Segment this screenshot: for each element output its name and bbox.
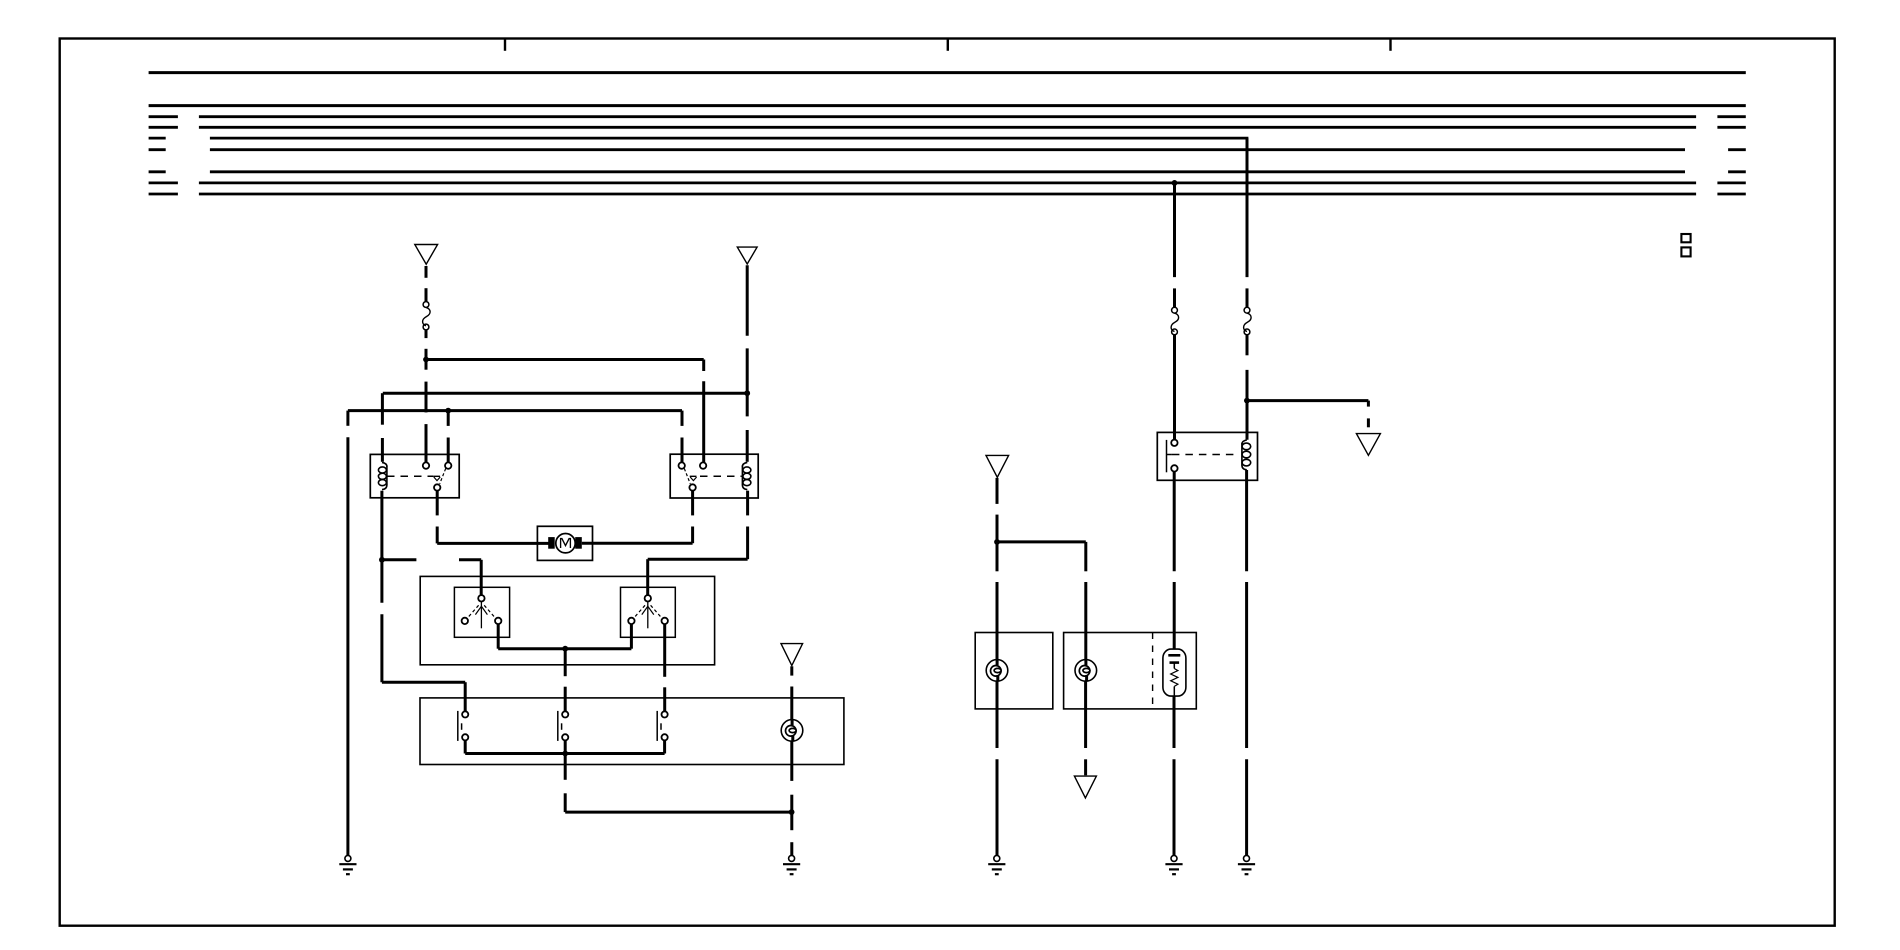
wire relay A common to motor <box>437 491 548 544</box>
contact B <box>558 711 569 741</box>
connector arrow T4 <box>1356 434 1380 456</box>
relay C box <box>1157 432 1257 480</box>
control unit lower box <box>420 698 844 765</box>
top border tick 1 <box>504 39 506 51</box>
junction node <box>789 809 795 815</box>
contact C <box>657 711 668 741</box>
wire ground rail for relay contacts <box>348 411 682 463</box>
wire bus line 7 <box>149 170 1746 173</box>
relay B box <box>670 454 758 498</box>
junction node <box>379 557 385 563</box>
junction node <box>562 751 568 757</box>
wire to key-off contact B <box>564 649 567 712</box>
switch 2 (3-position) <box>628 595 668 628</box>
ground G3 <box>988 855 1005 874</box>
junction node <box>423 357 429 363</box>
lamp unit box A <box>975 633 1053 709</box>
ground G2 <box>783 855 800 874</box>
junction node <box>445 408 451 414</box>
relay A coil <box>378 462 387 489</box>
wire branch to bulb L3 <box>997 542 1086 660</box>
motor M1 <box>548 534 582 553</box>
wire T2 to relay coils <box>746 265 749 462</box>
bulb L3 <box>1075 660 1097 682</box>
relay A coil-contact link (dashed) <box>387 475 433 477</box>
ground G4 <box>1165 855 1182 874</box>
wire T5 to illumination bulb <box>790 666 793 720</box>
top border tick 2 <box>947 39 949 51</box>
wire relay A coil to switch assembly <box>382 491 465 712</box>
wire bus line 2 <box>149 104 1746 107</box>
wire bulb L2 to ground G3 <box>996 681 999 855</box>
ground G1 <box>339 855 356 874</box>
wire bus line 5 (turns down at x=1247) <box>149 137 1249 140</box>
top border tick 3 <box>1389 39 1391 51</box>
relay B coil <box>742 462 751 489</box>
wire switch 2 right to contact C <box>663 624 666 711</box>
junction node <box>1172 180 1178 186</box>
fuse F2 <box>1171 307 1179 334</box>
wire bus line 1 <box>149 71 1746 74</box>
junction node <box>562 646 568 652</box>
wire bus line 6 <box>149 148 1746 151</box>
fuse F3 <box>1244 307 1252 334</box>
wire relay B coil to switch 2 common <box>648 491 748 596</box>
wire bulb to ground G2 <box>790 741 793 855</box>
relay B coil-contact link (dashed) <box>700 475 742 477</box>
contact A <box>458 711 469 741</box>
bulb L1 <box>781 720 803 742</box>
wire T1 to fuse F1 <box>425 266 428 302</box>
box B internal divider (dashed) <box>1152 633 1154 709</box>
junction node <box>1244 398 1250 404</box>
connector arrow T1 <box>415 245 438 265</box>
wire T3 down <box>996 478 999 542</box>
connector pin pair <box>1681 234 1690 256</box>
junction node <box>744 390 750 396</box>
wire output to lamp ground node <box>565 754 791 813</box>
wire bus line 3 <box>149 115 1746 118</box>
wire canister to ground G4 <box>1173 696 1176 855</box>
fuse F1 <box>423 302 431 330</box>
wire bus line 8 <box>149 181 1746 184</box>
connector arrow T3 <box>986 455 1009 477</box>
wire bus line 4 <box>149 126 1746 129</box>
junction node <box>994 539 1000 545</box>
relay A contacts <box>423 462 452 490</box>
wire branch to connector T4 <box>1247 401 1369 428</box>
wire F1 to relay A contact <box>425 330 428 463</box>
wire branch to relay B contact <box>426 360 704 463</box>
wire T3 to bulb L2 <box>996 542 999 660</box>
wire bus line 5 down to fuse F3 <box>1246 138 1249 307</box>
wire relay C contact to canister <box>1173 472 1176 649</box>
switch 2 box <box>621 587 676 637</box>
ground G5 <box>1238 855 1255 874</box>
wire switch outputs join <box>498 624 631 649</box>
wire relay C coil to ground G5 <box>1245 470 1248 855</box>
wire bulb L3 to connector T6 <box>1084 681 1087 775</box>
bulb L2 <box>986 660 1008 682</box>
wire F2 to relay C contact <box>1173 335 1176 440</box>
relay A box <box>370 454 459 497</box>
switch 1 box <box>454 587 509 637</box>
wire (dashed) to switch 1 common <box>382 560 481 595</box>
relay C coil-contact link (dashed) <box>1172 454 1238 456</box>
lamp unit box B <box>1064 633 1197 709</box>
relay B contacts <box>679 462 707 490</box>
wire coil feed to relay A coil <box>382 393 747 462</box>
wire bus line 9 <box>149 193 1746 196</box>
switch assembly outer box <box>420 576 714 664</box>
thermal canister element <box>1163 649 1186 696</box>
connector arrow T2 <box>737 247 757 264</box>
wire bus to fuse F2 <box>1173 183 1176 307</box>
wire to ground G1 <box>346 411 349 856</box>
wire F3 to relay C coil <box>1246 335 1249 440</box>
relay C coil <box>1242 440 1251 470</box>
connector arrow T6 <box>1074 776 1096 798</box>
switch 1 (3-position) <box>462 595 502 628</box>
wire motor to relay B common <box>582 491 693 544</box>
connector arrow T5 <box>781 644 803 666</box>
wire contact bottoms bus <box>465 740 664 753</box>
motor unit box <box>537 526 592 560</box>
relay C contact <box>1167 440 1178 473</box>
